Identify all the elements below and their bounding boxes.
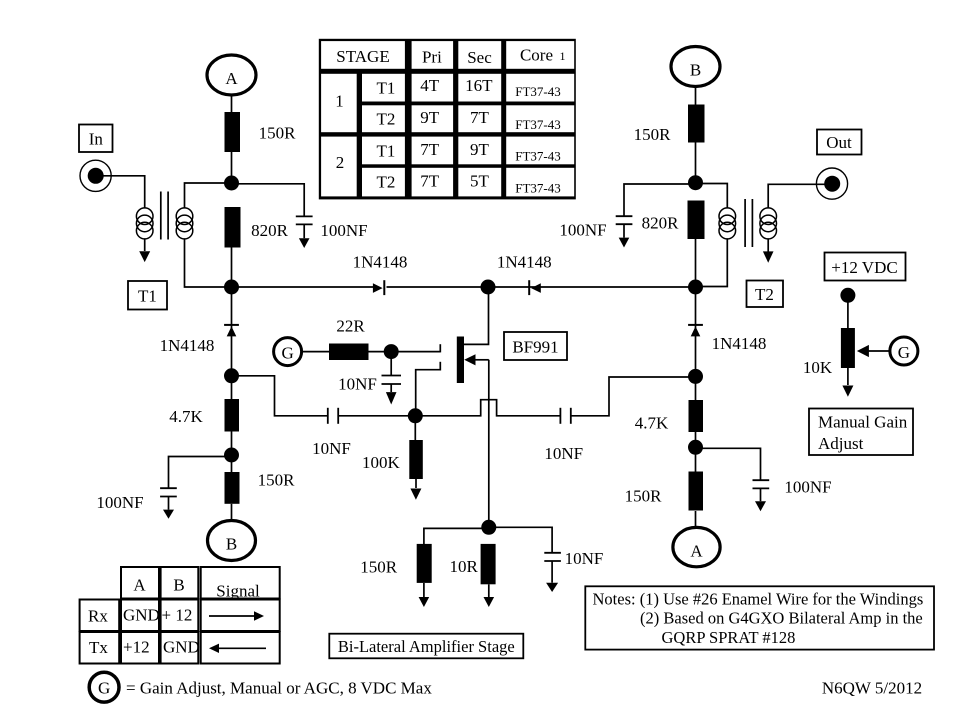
svg-text:9T: 9T xyxy=(420,108,440,127)
transformer T2 primary winding xyxy=(719,208,736,239)
wiper arrow G to R13 xyxy=(857,345,890,357)
node gate2 xyxy=(384,344,399,359)
svg-text:A: A xyxy=(133,576,146,595)
node at C2 / 100K junction xyxy=(408,408,423,423)
wire B to R9 xyxy=(695,87,697,106)
svg-text:Notes: (1) Use #26 Enamel Wire: Notes: (1) Use #26 Enamel Wire for the W… xyxy=(593,590,924,609)
wire R12 to terminal A xyxy=(695,511,697,528)
svg-text:N6QW 5/2012: N6QW 5/2012 xyxy=(822,679,922,698)
svg-text:Tx: Tx xyxy=(89,638,108,657)
BF991 label box xyxy=(504,332,567,360)
svg-text:Pri: Pri xyxy=(422,48,442,67)
Manual Gain Adjust box xyxy=(809,409,913,456)
terminal B (bottom left) xyxy=(208,521,256,561)
svg-text:100NF: 100NF xyxy=(784,478,831,497)
resistor R9 150R xyxy=(634,105,705,145)
signal arrow Rx (right) xyxy=(209,611,264,620)
svg-text:22R: 22R xyxy=(336,317,365,336)
terminal A (bottom right) xyxy=(673,527,720,566)
svg-text:Bi-Lateral Amplifier Stage: Bi-Lateral Amplifier Stage xyxy=(338,637,515,656)
center top node xyxy=(481,280,496,295)
svg-text:150R: 150R xyxy=(259,124,297,143)
gain node G (left) xyxy=(274,338,302,366)
resistor R4 150R xyxy=(225,471,296,504)
wire node to series capacitor C5 (with hop over source wire) xyxy=(415,400,560,416)
wire In to T1 primary xyxy=(104,176,145,208)
svg-text:B: B xyxy=(173,576,184,595)
svg-text:G: G xyxy=(898,343,910,362)
wire gate1 of Q1 to node xyxy=(416,362,441,416)
svg-text:7T: 7T xyxy=(420,172,440,191)
svg-text:BF991: BF991 xyxy=(512,338,558,357)
wire R4 to terminal B xyxy=(231,504,233,521)
node right-lower xyxy=(688,440,703,455)
wire T2 secondary top to Out connector xyxy=(768,184,825,208)
wire R3 to node xyxy=(231,431,233,472)
T2 label box xyxy=(747,281,784,308)
winding table row 2 xyxy=(376,108,560,132)
node at source bottom xyxy=(481,520,496,535)
svg-text:+12: +12 xyxy=(123,638,150,657)
svg-text:T2: T2 xyxy=(755,285,774,304)
wire D1 to center node xyxy=(387,286,489,288)
wire node to capacitor C1 xyxy=(232,184,305,217)
winding table row 3 xyxy=(376,140,560,164)
wire node to diode D1 xyxy=(232,286,376,288)
terminal A (top left) xyxy=(207,55,256,95)
svg-text:G: G xyxy=(281,344,293,363)
wire C5 to right node xyxy=(571,377,696,416)
wire node to capacitor C6 xyxy=(489,527,552,553)
signal table header texts xyxy=(133,576,260,601)
diode D1 1N4148 (points right) xyxy=(353,253,408,296)
gain node G (right) xyxy=(890,337,918,365)
svg-text:150R: 150R xyxy=(360,558,398,577)
svg-text:Rx: Rx xyxy=(88,607,108,626)
capacitor C8 100NF (bottom right) xyxy=(753,478,832,512)
In connector jack xyxy=(80,160,111,191)
svg-text:5T: 5T xyxy=(470,172,490,191)
svg-text:+12 VDC: +12 VDC xyxy=(831,258,897,277)
capacitor C4 10NF (bypass at gate2) xyxy=(338,352,401,405)
svg-text:T1: T1 xyxy=(376,79,395,98)
svg-text:A: A xyxy=(690,542,703,561)
svg-text:1: 1 xyxy=(560,49,566,63)
wire node to gate2 of Q1 xyxy=(391,344,440,352)
+12 VDC supply box xyxy=(825,253,906,281)
svg-text:820R: 820R xyxy=(642,214,680,233)
svg-text:FT37-43: FT37-43 xyxy=(515,117,561,132)
capacitor C5 10NF (series right) xyxy=(544,408,583,463)
svg-text:FT37-43: FT37-43 xyxy=(515,181,561,196)
svg-text:9T: 9T xyxy=(470,140,490,159)
capacitor C3 100NF (bottom left) xyxy=(96,488,176,519)
wire R11 to node xyxy=(695,432,697,472)
svg-text:7T: 7T xyxy=(470,108,490,127)
wire R5 to node xyxy=(369,351,392,353)
svg-text:150R: 150R xyxy=(258,471,296,490)
svg-text:1: 1 xyxy=(335,92,344,111)
wire R2 to node xyxy=(231,247,233,287)
node left gate branch xyxy=(224,368,239,383)
wire node down to R11 xyxy=(695,377,697,400)
svg-text:Out: Out xyxy=(826,133,852,152)
wire node down to diode D2 xyxy=(231,287,233,337)
capacitor C2 10NF (series) xyxy=(312,408,351,458)
svg-text:100NF: 100NF xyxy=(320,221,367,240)
notes box xyxy=(585,586,934,649)
winding table cells xyxy=(321,41,574,196)
winding table frame xyxy=(319,39,576,200)
svg-text:T1: T1 xyxy=(138,287,157,306)
node left-mid xyxy=(224,280,239,295)
capacitor C1 100NF xyxy=(296,216,368,248)
wire node to capacitor C3 xyxy=(169,457,232,489)
wire T1 secondary top to node xyxy=(185,183,232,208)
Out connector jack xyxy=(816,168,847,199)
svg-text:100NF: 100NF xyxy=(96,493,143,512)
capacitor C7 100NF (right top) xyxy=(559,216,632,247)
svg-text:7T: 7T xyxy=(420,140,440,159)
svg-text:Core: Core xyxy=(520,46,553,65)
T2 secondary ground arrow xyxy=(763,239,774,263)
svg-text:10NF: 10NF xyxy=(565,549,604,568)
svg-text:STAGE: STAGE xyxy=(336,47,389,66)
T1 primary ground arrow xyxy=(139,239,150,262)
svg-text:10R: 10R xyxy=(450,557,479,576)
transformer T1 primary winding xyxy=(136,208,153,239)
svg-text:2: 2 xyxy=(336,153,345,172)
svg-text:T2: T2 xyxy=(376,173,395,192)
wire R10 to node xyxy=(695,239,697,287)
svg-text:GQRP SPRAT #128: GQRP SPRAT #128 xyxy=(662,628,796,647)
svg-text:10NF: 10NF xyxy=(312,439,351,458)
svg-text:A: A xyxy=(225,69,238,88)
node left-lower xyxy=(224,448,239,463)
signal arrow Tx (left) xyxy=(209,644,266,653)
resistor R11 4.7K xyxy=(635,400,703,433)
resistor R12 150R xyxy=(625,472,703,511)
transistor Q1 BF991 xyxy=(457,287,489,527)
resistor R2 820R xyxy=(225,207,289,248)
resistor R13 10K xyxy=(803,328,855,377)
R13 ground arrow xyxy=(842,368,853,397)
resistor R6 100K xyxy=(362,416,423,500)
svg-text:150R: 150R xyxy=(634,125,672,144)
svg-text:Manual Gain: Manual Gain xyxy=(818,413,908,432)
wire node to series capacitor C2 xyxy=(232,376,328,416)
transformer T2 secondary winding xyxy=(760,208,777,239)
winding table row 4 xyxy=(376,172,560,196)
node left-upper xyxy=(224,176,239,191)
svg-text:T2: T2 xyxy=(376,110,395,129)
svg-text:Signal: Signal xyxy=(216,582,260,601)
svg-text:Sec: Sec xyxy=(467,48,492,67)
svg-text:GND: GND xyxy=(123,606,160,625)
svg-text:1N4148: 1N4148 xyxy=(160,336,215,355)
wire A to R1 xyxy=(231,95,233,113)
resistor R5 22R xyxy=(329,317,369,361)
svg-text:GND: GND xyxy=(163,638,200,657)
wire R9 to node xyxy=(695,143,697,184)
signal table Rx row xyxy=(88,606,192,626)
wire node down to R3 xyxy=(231,376,233,400)
svg-text:FT37-43: FT37-43 xyxy=(515,149,561,164)
node +12 VDC xyxy=(840,288,855,303)
resistor R7 150R xyxy=(360,544,431,607)
wire D2 to node xyxy=(231,337,233,376)
svg-text:= Gain Adjust, Manual or AGC,: = Gain Adjust, Manual or AGC, 8 VDC Max xyxy=(126,679,432,698)
winding table row 1 xyxy=(376,76,560,99)
svg-text:150R: 150R xyxy=(625,487,663,506)
wire D4 to node xyxy=(695,337,697,377)
diode D4 1N4148 (points up) xyxy=(688,325,766,353)
svg-text:1N4148: 1N4148 xyxy=(353,253,408,272)
svg-text:16T: 16T xyxy=(465,76,493,95)
svg-text:10NF: 10NF xyxy=(544,444,583,463)
resistor R3 4.7K xyxy=(169,399,239,432)
wire T1 secondary bottom to node xyxy=(185,239,232,287)
svg-text:1N4148: 1N4148 xyxy=(712,334,767,353)
svg-text:T1: T1 xyxy=(376,142,395,161)
winding table header texts xyxy=(336,46,565,68)
resistor R1 150R xyxy=(225,112,297,152)
svg-text:FT37-43: FT37-43 xyxy=(515,84,561,99)
Out port box xyxy=(817,130,862,155)
node right gate branch xyxy=(688,369,703,384)
T1 core xyxy=(161,192,168,240)
svg-text:1N4148: 1N4148 xyxy=(497,253,552,272)
wire T2 primary bottom to node xyxy=(696,239,728,287)
svg-text:4.7K: 4.7K xyxy=(635,414,669,433)
node right-mid xyxy=(688,280,703,295)
capacitor C6 10NF (source bypass) xyxy=(544,549,603,592)
wire node to capacitor C7 xyxy=(624,184,696,216)
svg-text:(2) Based on G4GXO Bilateral A: (2) Based on G4GXO Bilateral Amp in the xyxy=(640,608,923,627)
winding table stage numbers xyxy=(335,92,344,173)
svg-text:In: In xyxy=(89,130,104,149)
wire node to T2 primary top xyxy=(696,184,728,209)
svg-text:4.7K: 4.7K xyxy=(169,407,203,426)
wire node to R7 xyxy=(424,528,489,544)
wire node to capacitor C8 xyxy=(696,448,761,480)
wire R1 to node xyxy=(231,152,233,183)
node right-upper xyxy=(688,175,703,190)
T2 core xyxy=(745,199,752,247)
svg-text:100NF: 100NF xyxy=(559,221,606,240)
svg-text:820R: 820R xyxy=(251,221,289,240)
svg-text:10NF: 10NF xyxy=(338,374,377,393)
signal table cells xyxy=(80,567,280,664)
wire G to R5 xyxy=(302,351,329,353)
svg-text:Adjust: Adjust xyxy=(818,434,864,453)
svg-text:B: B xyxy=(226,535,237,554)
title box Bi-Lateral Amplifier Stage xyxy=(329,634,523,659)
resistor R8 10R xyxy=(450,544,496,607)
svg-text:G: G xyxy=(98,679,110,698)
svg-text:B: B xyxy=(690,61,701,80)
svg-text:4T: 4T xyxy=(420,76,440,95)
signal table Tx row xyxy=(89,638,200,658)
T1 label box xyxy=(128,281,167,310)
wire C2 to node at 100K xyxy=(338,415,415,417)
resistor R10 820R xyxy=(642,201,705,240)
svg-text:+ 12: + 12 xyxy=(162,606,193,625)
In port box xyxy=(79,125,113,153)
G legend node xyxy=(89,672,119,702)
svg-text:10K: 10K xyxy=(803,358,833,377)
terminal B (top right) xyxy=(671,47,720,87)
diode D2 1N4148 (points up) xyxy=(160,325,239,355)
svg-text:100K: 100K xyxy=(362,453,401,472)
diode D3 1N4148 (points left) xyxy=(488,253,696,296)
transformer T1 secondary winding xyxy=(176,208,193,239)
wire node down to diode D4 xyxy=(695,287,697,337)
wire node to R13 xyxy=(847,295,849,328)
